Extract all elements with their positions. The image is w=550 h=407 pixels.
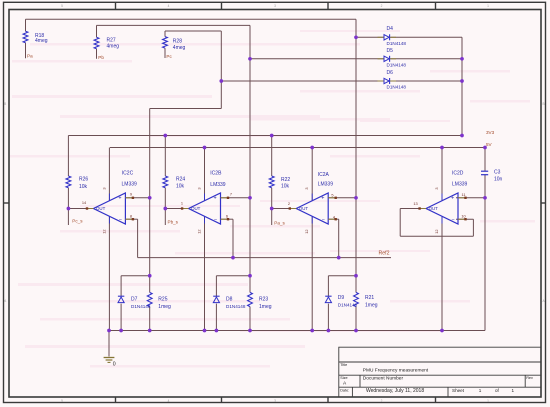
svg-text:D1N4148: D1N4148 [387, 41, 407, 46]
svg-text:9: 9 [130, 192, 132, 197]
svg-text:4meg: 4meg [173, 45, 186, 51]
svg-text:Size: Size [340, 376, 347, 380]
svg-text:LM339: LM339 [122, 181, 138, 187]
svg-text:12: 12 [304, 229, 309, 233]
svg-text:−: − [451, 217, 454, 223]
svg-text:1: 1 [487, 399, 489, 403]
svg-text:10n: 10n [494, 176, 503, 182]
svg-text:6: 6 [226, 214, 228, 219]
svg-text:D8: D8 [226, 297, 233, 303]
svg-text:Pc: Pc [166, 54, 172, 59]
svg-text:+: + [451, 196, 454, 202]
svg-text:R23: R23 [259, 297, 268, 303]
svg-text:3: 3 [434, 187, 439, 189]
svg-text:R27: R27 [107, 37, 116, 43]
svg-text:5: 5 [61, 399, 63, 403]
svg-text:+: + [118, 196, 121, 202]
svg-text:12: 12 [101, 229, 106, 233]
svg-text:7: 7 [230, 192, 232, 197]
svg-text:3V3: 3V3 [486, 130, 495, 135]
svg-text:1meg: 1meg [365, 302, 378, 308]
svg-text:LM339: LM339 [210, 182, 226, 188]
svg-text:3: 3 [101, 187, 106, 189]
svg-text:Ref2: Ref2 [379, 251, 390, 257]
svg-text:1: 1 [479, 388, 482, 393]
svg-text:−: − [119, 217, 122, 223]
svg-text:D1N4148: D1N4148 [131, 304, 151, 309]
svg-text:3: 3 [274, 399, 276, 403]
svg-text:D7: D7 [131, 297, 138, 303]
svg-text:12: 12 [434, 229, 439, 233]
svg-text:R25: R25 [158, 297, 167, 303]
svg-text:Pb_s: Pb_s [168, 220, 179, 225]
svg-text:2: 2 [381, 399, 383, 403]
svg-text:R21: R21 [365, 295, 374, 301]
svg-text:IC2D: IC2D [452, 171, 464, 177]
svg-text:3: 3 [197, 187, 202, 189]
svg-text:D1N4148: D1N4148 [387, 62, 407, 67]
svg-text:OUT: OUT [96, 206, 106, 211]
svg-text:R22: R22 [281, 177, 290, 183]
svg-text:4: 4 [168, 4, 170, 8]
svg-text:D5: D5 [387, 48, 394, 54]
svg-text:R26: R26 [79, 177, 88, 183]
svg-text:Date:: Date: [340, 389, 349, 393]
svg-text:1meg: 1meg [158, 304, 171, 310]
svg-text:LM339: LM339 [452, 182, 468, 188]
svg-text:PMU Frequency measurement: PMU Frequency measurement [363, 368, 429, 374]
svg-text:Title: Title [340, 363, 347, 367]
svg-text:10k: 10k [281, 184, 290, 190]
svg-text:Rev: Rev [526, 376, 533, 380]
svg-text:D9: D9 [338, 295, 345, 301]
svg-text:Pb: Pb [98, 55, 104, 60]
svg-text:3: 3 [304, 187, 309, 189]
svg-text:OUT: OUT [429, 206, 439, 211]
svg-text:R28: R28 [173, 39, 182, 45]
svg-text:OUT: OUT [191, 206, 201, 211]
svg-text:D4: D4 [387, 26, 394, 32]
svg-text:5: 5 [331, 192, 333, 197]
svg-text:10k: 10k [176, 184, 185, 190]
svg-text:−: − [322, 217, 325, 223]
svg-text:1: 1 [181, 201, 183, 206]
svg-text:13: 13 [413, 201, 417, 206]
svg-text:Document Number: Document Number [363, 375, 404, 381]
svg-text:IC2C: IC2C [122, 170, 134, 176]
svg-text:0: 0 [113, 362, 116, 368]
svg-text:3: 3 [274, 4, 276, 8]
svg-text:Pa: Pa [27, 54, 33, 59]
svg-text:4meg: 4meg [107, 44, 120, 50]
svg-text:12: 12 [197, 229, 202, 233]
svg-text:D1N4148: D1N4148 [387, 85, 407, 90]
svg-text:Pa_s: Pa_s [274, 221, 285, 226]
svg-text:D6: D6 [387, 70, 394, 76]
svg-text:D1N4148: D1N4148 [226, 304, 246, 309]
svg-text:8: 8 [130, 214, 132, 219]
svg-text:R24: R24 [176, 177, 185, 183]
svg-text:−: − [214, 217, 217, 223]
svg-text:2: 2 [288, 201, 290, 206]
svg-text:5V: 5V [486, 142, 493, 147]
svg-text:B: B [4, 102, 6, 106]
svg-text:+: + [214, 196, 217, 202]
svg-text:1: 1 [487, 4, 489, 8]
svg-text:+: + [321, 196, 324, 202]
svg-text:Wednesday, July 11, 2018: Wednesday, July 11, 2018 [366, 388, 424, 394]
svg-text:4: 4 [168, 399, 170, 403]
svg-text:11: 11 [461, 192, 465, 197]
svg-text:Pc_s: Pc_s [72, 219, 83, 224]
svg-text:5: 5 [61, 4, 63, 8]
svg-text:10k: 10k [79, 184, 88, 190]
svg-text:4meg: 4meg [35, 38, 48, 44]
svg-text:LM339: LM339 [318, 182, 334, 188]
svg-text:Sheet: Sheet [452, 388, 465, 393]
svg-text:2: 2 [381, 4, 383, 8]
svg-text:B: B [543, 102, 545, 106]
svg-text:1meg: 1meg [259, 304, 272, 310]
svg-text:1: 1 [512, 388, 515, 393]
svg-text:C3: C3 [494, 169, 501, 175]
svg-text:IC2B: IC2B [210, 170, 222, 176]
svg-text:OUT: OUT [299, 206, 309, 211]
svg-text:IC2A: IC2A [318, 172, 330, 178]
svg-text:D1N4148: D1N4148 [338, 302, 358, 307]
